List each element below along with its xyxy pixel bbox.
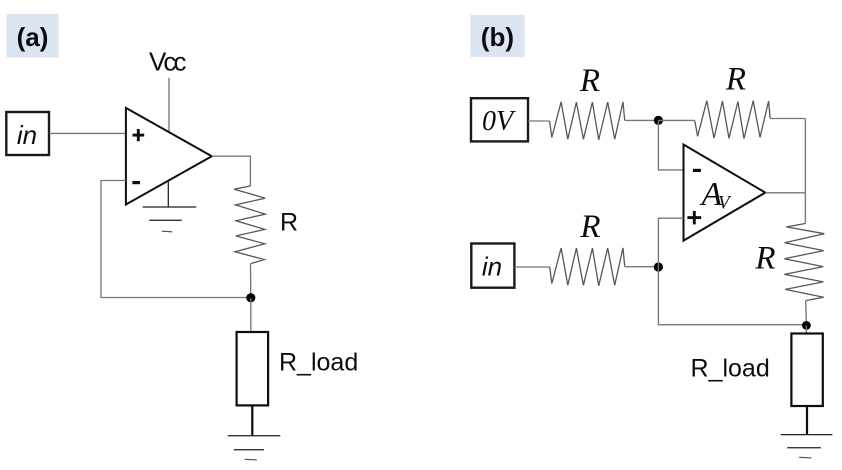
svg-text:in: in bbox=[17, 120, 37, 150]
svg-text:in: in bbox=[482, 251, 502, 281]
pin label + (U2 non-inverting) bbox=[687, 211, 701, 224]
svg-text:(b): (b) bbox=[481, 22, 514, 52]
svg-text:R: R bbox=[725, 61, 746, 97]
wire Vcc to op-amp bbox=[168, 78, 170, 133]
wire feedback corner down to R4 bbox=[804, 119, 806, 224]
node B junction bbox=[654, 116, 663, 125]
svg-text:(a): (a) bbox=[17, 22, 49, 52]
ground G3 (circuit b bottom) bbox=[781, 435, 833, 458]
wire 0V to R1 bbox=[528, 120, 550, 122]
node A junction bbox=[246, 293, 255, 302]
source box in (circuit a) bbox=[6, 112, 49, 155]
resistor R (circuit a) bbox=[234, 186, 265, 264]
wire R3 to node C bbox=[625, 266, 659, 268]
wire R2 to feedback corner bbox=[770, 118, 805, 120]
svg-text:Vcc: Vcc bbox=[149, 47, 187, 77]
ground G1 (op-amp a) bbox=[143, 181, 197, 232]
wire node B down to - input bbox=[658, 120, 683, 169]
wire R_load to ground G2 bbox=[251, 405, 253, 435]
pin label - (U1 inverting) bbox=[132, 181, 140, 184]
wire node B to R2 bbox=[658, 119, 694, 121]
svg-text:R: R bbox=[579, 209, 600, 245]
pin label + (U1 non-inverting) bbox=[133, 129, 145, 141]
resistor R1 (0V input R) bbox=[550, 102, 625, 140]
wire node D to R_load (b) bbox=[805, 325, 807, 333]
resistor R4 (vertical R, circuit b) bbox=[784, 224, 824, 301]
figure label (b) bbox=[470, 15, 524, 57]
source box in (circuit b) bbox=[471, 244, 514, 288]
resistor R_load (circuit b) bbox=[791, 334, 822, 407]
resistor R3 (in input R) bbox=[550, 248, 625, 286]
wire R to node A bbox=[250, 264, 252, 298]
wire feedback (node A to - input) bbox=[101, 181, 251, 298]
svg-text:R_load: R_load bbox=[691, 355, 770, 383]
node C junction bbox=[654, 262, 663, 271]
pin label - (U2 inverting) bbox=[693, 169, 701, 172]
wire in to + input bbox=[49, 132, 126, 134]
wire op-amp U2 output bbox=[765, 192, 805, 194]
wire in to R3 bbox=[514, 266, 549, 268]
wire op-amp output to R bbox=[212, 156, 251, 186]
figure label (a) bbox=[7, 14, 59, 58]
svg-text:R: R bbox=[579, 63, 600, 99]
svg-text:R: R bbox=[754, 240, 775, 276]
wire R1 to node B bbox=[625, 119, 659, 121]
wire node C up to + input bbox=[658, 218, 683, 267]
resistor R2 (feedback R) bbox=[695, 101, 770, 139]
node D junction bbox=[802, 321, 811, 330]
gain label Av (U2) bbox=[700, 176, 733, 214]
wire node C down to node D bbox=[658, 267, 806, 325]
resistor R_load (circuit a) bbox=[237, 332, 269, 405]
ground G2 (circuit a bottom) bbox=[228, 436, 281, 460]
svg-text:R_load: R_load bbox=[279, 349, 358, 377]
op-amp U2 bbox=[684, 145, 766, 241]
wire R4 to node D bbox=[805, 301, 808, 326]
source box 0V (circuit b) bbox=[471, 98, 528, 141]
wire node A to R_load bbox=[250, 298, 252, 332]
wire R_load to ground G3 bbox=[806, 406, 808, 435]
op-amp U1 bbox=[126, 108, 212, 205]
svg-text:0V: 0V bbox=[482, 106, 516, 137]
svg-text:R: R bbox=[280, 209, 298, 237]
